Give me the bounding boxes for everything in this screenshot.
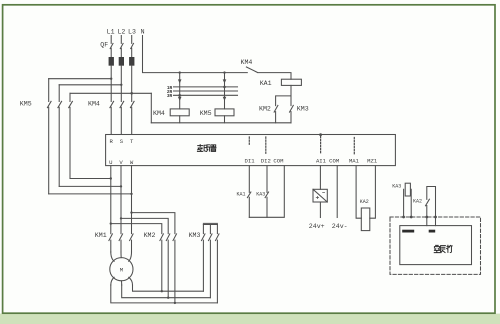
wire U to KM2	[110, 222, 162, 233]
svg-text:KA3: KA3	[392, 184, 401, 190]
wire L3 branch to control rail	[150, 93, 152, 123]
node 1R bus	[167, 86, 238, 91]
svg-text:KM4: KM4	[88, 100, 100, 107]
coil KA2	[356, 166, 375, 231]
node N	[141, 29, 145, 36]
svg-text:L2: L2	[117, 29, 125, 36]
contact KM3 aux	[290, 105, 309, 122]
svg-text:MZ1: MZ1	[367, 158, 378, 165]
wire motor loop 2	[122, 285, 211, 298]
svg-text:N: N	[141, 29, 145, 36]
signal line MA1	[353, 138, 355, 155]
svg-text:KA1: KA1	[237, 191, 246, 197]
wire V to KM2	[120, 217, 168, 233]
svg-text:COM: COM	[273, 158, 283, 165]
svg-text:KM3: KM3	[297, 106, 309, 113]
svg-text:S: S	[120, 138, 124, 145]
wire W to KM2	[130, 211, 175, 233]
contact KA1 run	[237, 166, 251, 218]
svg-text:DI2: DI2	[261, 158, 271, 165]
wire L3 phase	[131, 65, 133, 101]
signal line DI1	[248, 137, 250, 145]
svg-text:M: M	[120, 267, 123, 274]
contact KA2 start	[413, 187, 436, 226]
terminal label fault output	[402, 230, 414, 233]
fuse FU1	[109, 57, 114, 65]
svg-text:KM3: KM3	[189, 232, 201, 239]
wire control rail	[151, 122, 291, 124]
svg-text:KM4: KM4	[241, 59, 253, 66]
inverter U1 box	[106, 135, 396, 166]
fuse FU3	[129, 57, 134, 65]
svg-text:W: W	[130, 159, 134, 166]
svg-text:U: U	[109, 159, 112, 166]
svg-text:3R: 3R	[167, 94, 173, 99]
svg-text:KM2: KM2	[144, 232, 156, 239]
contactor KM3	[189, 225, 219, 303]
svg-text:KM5: KM5	[200, 110, 212, 117]
wire star bar	[203, 223, 217, 224]
breaker QF	[100, 36, 133, 58]
svg-text:24v-: 24v-	[332, 223, 348, 230]
svg-text:R: R	[110, 138, 114, 145]
signal line AI1	[319, 133, 322, 154]
node L1	[107, 29, 115, 36]
wire motor loop 1	[133, 285, 204, 291]
compressor dashed enclosure	[390, 216, 481, 275]
svg-text:KA2: KA2	[360, 199, 369, 205]
svg-text:MA1: MA1	[349, 158, 360, 165]
contactor KM4 main contacts	[88, 100, 134, 134]
svg-text:DI1: DI1	[245, 158, 256, 165]
svg-text:V: V	[119, 159, 123, 166]
svg-text:KM5: KM5	[20, 100, 32, 107]
wire motor loop 3	[111, 285, 218, 303]
svg-text:KA1: KA1	[260, 80, 272, 87]
svg-text:T: T	[130, 138, 134, 145]
svg-text:COM: COM	[329, 158, 339, 165]
wire bypass to U V W	[49, 177, 133, 195]
wire bypass branch top	[49, 78, 152, 95]
transmitter B1	[313, 166, 327, 218]
wire L1 phase	[110, 65, 112, 101]
svg-text:L3: L3	[128, 29, 136, 36]
coil KA3	[392, 183, 411, 217]
wire COM bar	[249, 166, 284, 218]
wire coil feed 1	[178, 71, 182, 109]
wire KA1 to contacts	[276, 85, 291, 105]
svg-text:QF: QF	[100, 42, 108, 49]
fuse FU2	[119, 57, 124, 65]
contactor KM5 bypass contacts	[20, 79, 73, 194]
signal line DI2	[265, 137, 267, 155]
contactor KM2	[144, 232, 177, 304]
svg-text:KM1: KM1	[95, 232, 107, 239]
wire coil feed 2	[223, 71, 227, 109]
wire V motor	[120, 166, 122, 234]
terminal label start	[429, 230, 436, 233]
node L3	[128, 29, 136, 36]
coil KA1	[260, 79, 302, 87]
coil KM5	[200, 109, 234, 123]
svg-text:KM2: KM2	[259, 106, 271, 113]
wire U motor	[110, 166, 112, 234]
contact KM2 aux	[259, 105, 278, 122]
svg-text:24v+: 24v+	[309, 223, 325, 230]
node 3R bus	[167, 94, 238, 99]
svg-text:AI1: AI1	[316, 158, 327, 165]
motor M	[110, 252, 133, 285]
contact KA3 fault	[256, 166, 268, 218]
node 2R bus	[167, 90, 238, 95]
label 空压机	[434, 245, 452, 252]
compressor box	[400, 226, 472, 265]
svg-text:KA2: KA2	[413, 198, 422, 204]
svg-text:KM4: KM4	[153, 110, 165, 117]
node L2	[117, 29, 125, 36]
coil KM4	[153, 109, 189, 123]
wire W motor	[131, 166, 133, 234]
wire COM 24v-	[336, 166, 338, 218]
contact KM4 aux	[241, 59, 292, 79]
wire N	[143, 36, 248, 73]
svg-text:KA3: KA3	[256, 191, 265, 197]
svg-text:L1: L1	[107, 29, 115, 36]
label 变频器	[197, 145, 216, 152]
wire L2 phase	[120, 65, 122, 101]
contactor KM1	[95, 232, 133, 252]
